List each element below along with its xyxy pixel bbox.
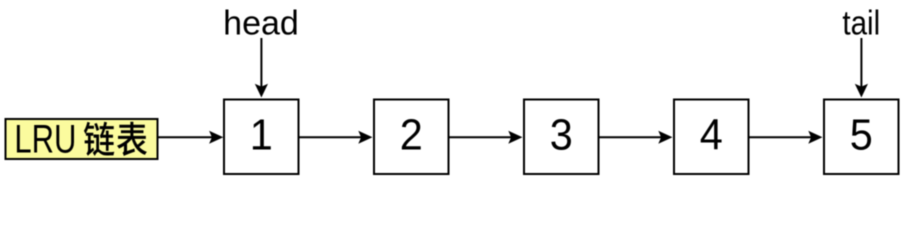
arrow label-to-node1: [159, 131, 224, 144]
svg-text:1: 1: [250, 112, 273, 160]
svg-text:tail: tail: [842, 4, 880, 42]
svg-text:head: head: [223, 5, 299, 43]
node 1 box: [224, 100, 299, 175]
svg-text:4: 4: [700, 112, 723, 160]
node 3 box: [524, 100, 599, 175]
arrow node4-to-node5: [749, 131, 823, 144]
arrow tail pointer: [855, 38, 868, 98]
arrow node3-to-node4: [599, 131, 673, 144]
glyph biao: [117, 122, 147, 156]
LRU list label box: [6, 119, 158, 159]
arrow head pointer: [255, 38, 268, 98]
node 2 box: [374, 100, 449, 175]
svg-text:2: 2: [400, 112, 423, 160]
svg-text:LRU: LRU: [14, 117, 76, 161]
node 5 box: [824, 100, 899, 175]
glyph lian: [84, 122, 114, 156]
arrow node2-to-node3: [449, 131, 523, 144]
svg-text:5: 5: [850, 112, 873, 160]
svg-text:3: 3: [550, 112, 573, 160]
arrow node1-to-node2: [299, 131, 373, 144]
node 4 box: [674, 100, 749, 175]
